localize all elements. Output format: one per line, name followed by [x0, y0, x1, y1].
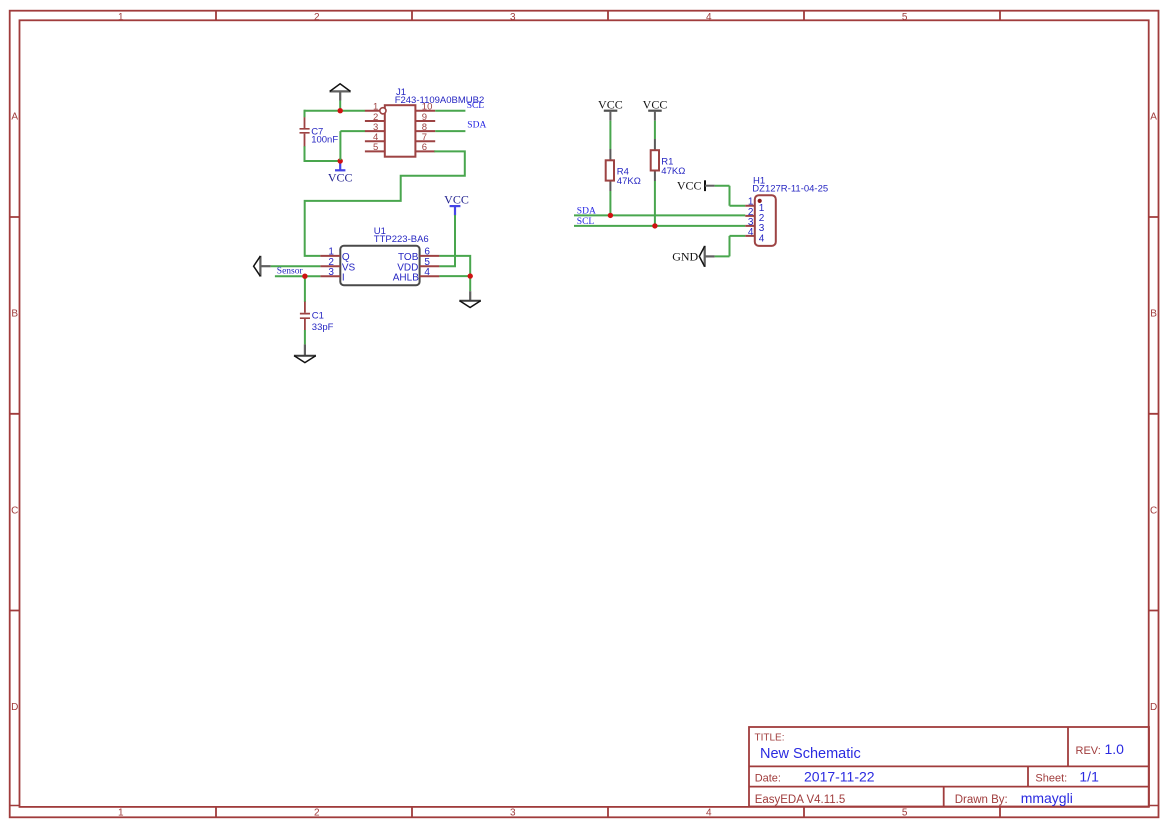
wire SCL from pin10: [435, 110, 465, 112]
wire J1 pin3 to VCC node: [340, 131, 365, 160]
wire VCC to R4: [609, 121, 611, 149]
VCC flag above R4 (black): [598, 97, 623, 120]
svg-text:3: 3: [510, 808, 516, 819]
svg-text:2: 2: [314, 808, 320, 819]
svg-text:4: 4: [759, 233, 765, 244]
svg-text:SCL: SCL: [577, 217, 595, 227]
wire VCC to H1 pin1: [715, 186, 746, 206]
wire R4 to SDA: [609, 191, 611, 215]
J1 right pin numbers 10-6: [422, 102, 433, 154]
svg-text:4: 4: [424, 267, 430, 278]
junction node AHLB: [468, 273, 473, 278]
VCC bar flag at H1 pin1 (black): [677, 179, 715, 193]
wire C7 bottom: [304, 146, 341, 161]
svg-text:B: B: [1150, 308, 1157, 319]
wire SDA from pin8: [435, 130, 465, 132]
ruler letters left: [11, 111, 18, 713]
svg-text:2: 2: [314, 12, 320, 23]
svg-text:D: D: [11, 702, 18, 713]
svg-text:1: 1: [118, 808, 124, 819]
junction node R1/SCL: [652, 223, 657, 228]
connector H1 box: [755, 195, 776, 246]
margin band corner caps: [10, 805, 1159, 807]
H1 pin stubs: [745, 206, 755, 236]
U1 left pin names: [342, 252, 356, 283]
ground right of U1: [459, 291, 481, 307]
ruler numbers top: [118, 12, 908, 23]
resistor R4: [606, 149, 614, 191]
wire VCC to VDD pin5: [439, 215, 456, 266]
wire VCC to R1: [654, 121, 656, 139]
capacitor C7: [300, 117, 310, 146]
svg-text:Sheet:: Sheet:: [1035, 772, 1067, 784]
svg-text:DZ127R-11-04-25: DZ127R-11-04-25: [752, 184, 828, 195]
svg-text:6: 6: [422, 142, 427, 153]
H1 outside pin numbers: [748, 197, 754, 238]
resistor R1: [651, 139, 659, 181]
svg-text:VCC: VCC: [643, 97, 668, 111]
H1 first pin dot: [758, 199, 762, 203]
svg-text:VCC: VCC: [328, 170, 353, 184]
J1 right pin stubs: [415, 111, 435, 152]
svg-text:A: A: [1150, 111, 1157, 122]
svg-text:4: 4: [748, 227, 754, 238]
J1 left pin numbers 1-5: [373, 102, 378, 154]
svg-text:SDA: SDA: [577, 207, 596, 217]
svg-text:VCC: VCC: [598, 97, 623, 111]
title block frame: [749, 727, 1149, 807]
wire SCL bus: [574, 225, 745, 227]
wire node to C1: [304, 276, 306, 302]
svg-text:C: C: [1150, 505, 1157, 516]
GND arrow flag at H1 pin4 (black): [672, 246, 714, 267]
H1 inside pin numbers: [759, 203, 765, 244]
svg-text:TTP223-BA6: TTP223-BA6: [374, 234, 429, 245]
ground below C1: [294, 344, 316, 362]
svg-text:5: 5: [902, 808, 908, 819]
svg-text:4: 4: [706, 808, 712, 819]
U1 right pin names: [393, 252, 419, 283]
U1 right pin stubs: [420, 256, 440, 276]
svg-text:Sensor: Sensor: [277, 266, 304, 276]
svg-text:SDA: SDA: [467, 121, 486, 131]
wire node to ground: [469, 276, 471, 291]
J1 left pin stubs: [365, 111, 385, 152]
svg-text:1/1: 1/1: [1079, 769, 1099, 785]
wire antenna to node: [339, 101, 341, 111]
VCC flag above U1 (blue): [444, 193, 469, 216]
svg-text:1: 1: [118, 12, 124, 23]
capacitor C1: [300, 302, 310, 331]
U1 left pin stubs: [320, 256, 340, 276]
ruler numbers bottom: [118, 808, 908, 819]
svg-text:EasyEDA V4.11.5: EasyEDA V4.11.5: [755, 794, 846, 806]
svg-text:GND: GND: [672, 250, 698, 264]
wire port to pin2: [271, 265, 321, 267]
port arrow at U1 pin2: [254, 256, 271, 277]
svg-text:B: B: [11, 308, 18, 319]
wire pin1 row: [305, 110, 366, 112]
wire C7 top: [304, 110, 306, 118]
wire SDA bus: [574, 214, 745, 216]
ruler ticks left: [10, 217, 20, 611]
svg-text:5: 5: [902, 12, 908, 23]
svg-text:1.0: 1.0: [1105, 741, 1125, 757]
J1 pin1 bubble: [380, 108, 386, 114]
antenna flag (up triangle): [330, 84, 351, 101]
svg-text:I: I: [342, 273, 345, 284]
ruler ticks right: [1149, 217, 1159, 611]
svg-text:VCC: VCC: [677, 179, 702, 193]
junction node R4/SDA: [608, 213, 613, 218]
svg-text:4: 4: [706, 12, 712, 23]
junction node at VCC: [338, 158, 343, 163]
VCC flag below C7 node (blue): [328, 161, 353, 184]
svg-text:D: D: [1150, 702, 1157, 713]
svg-text:C1: C1: [312, 311, 324, 322]
connector J1 box: [385, 105, 416, 157]
svg-text:SCL: SCL: [467, 101, 485, 111]
ruler letters right: [1150, 111, 1157, 713]
wire TOB pin6 to AHLB pin4: [439, 255, 470, 276]
ruler ticks bottom: [216, 807, 1000, 817]
svg-text:2017-11-22: 2017-11-22: [804, 769, 875, 785]
U1 left pin numbers: [328, 247, 334, 278]
svg-text:5: 5: [373, 142, 378, 153]
svg-text:47KΩ: 47KΩ: [617, 176, 641, 187]
wire GND to H1 pin4: [715, 236, 746, 257]
wire sensor row pin3: [275, 275, 320, 277]
svg-text:A: A: [11, 111, 18, 122]
junction node sensor: [302, 274, 307, 279]
U1 right pin numbers: [424, 247, 430, 278]
svg-text:100nF: 100nF: [311, 135, 338, 146]
junction node at antenna: [338, 108, 343, 113]
svg-text:REV:: REV:: [1076, 745, 1101, 757]
svg-text:C: C: [11, 505, 18, 516]
svg-text:3: 3: [510, 12, 516, 23]
svg-text:33pF: 33pF: [312, 322, 334, 333]
wire J1 pin6 to U1 pin1: [305, 151, 465, 256]
VCC flag above R1 (black): [643, 97, 668, 120]
wire R1 to SCL: [654, 181, 656, 226]
ruler ticks top: [216, 11, 1000, 21]
svg-text:47KΩ: 47KΩ: [661, 166, 685, 177]
svg-text:Date:: Date:: [755, 772, 781, 784]
svg-text:VCC: VCC: [444, 193, 469, 207]
svg-text:New Schematic: New Schematic: [760, 746, 861, 762]
svg-text:3: 3: [328, 267, 334, 278]
svg-text:AHLB: AHLB: [393, 273, 419, 284]
svg-text:mmaygli: mmaygli: [1021, 790, 1073, 806]
svg-text:Drawn By:: Drawn By:: [955, 794, 1008, 806]
svg-text:TITLE:: TITLE:: [755, 733, 785, 744]
wire C1 to ground: [304, 330, 306, 344]
IC U1 box: [340, 246, 419, 285]
